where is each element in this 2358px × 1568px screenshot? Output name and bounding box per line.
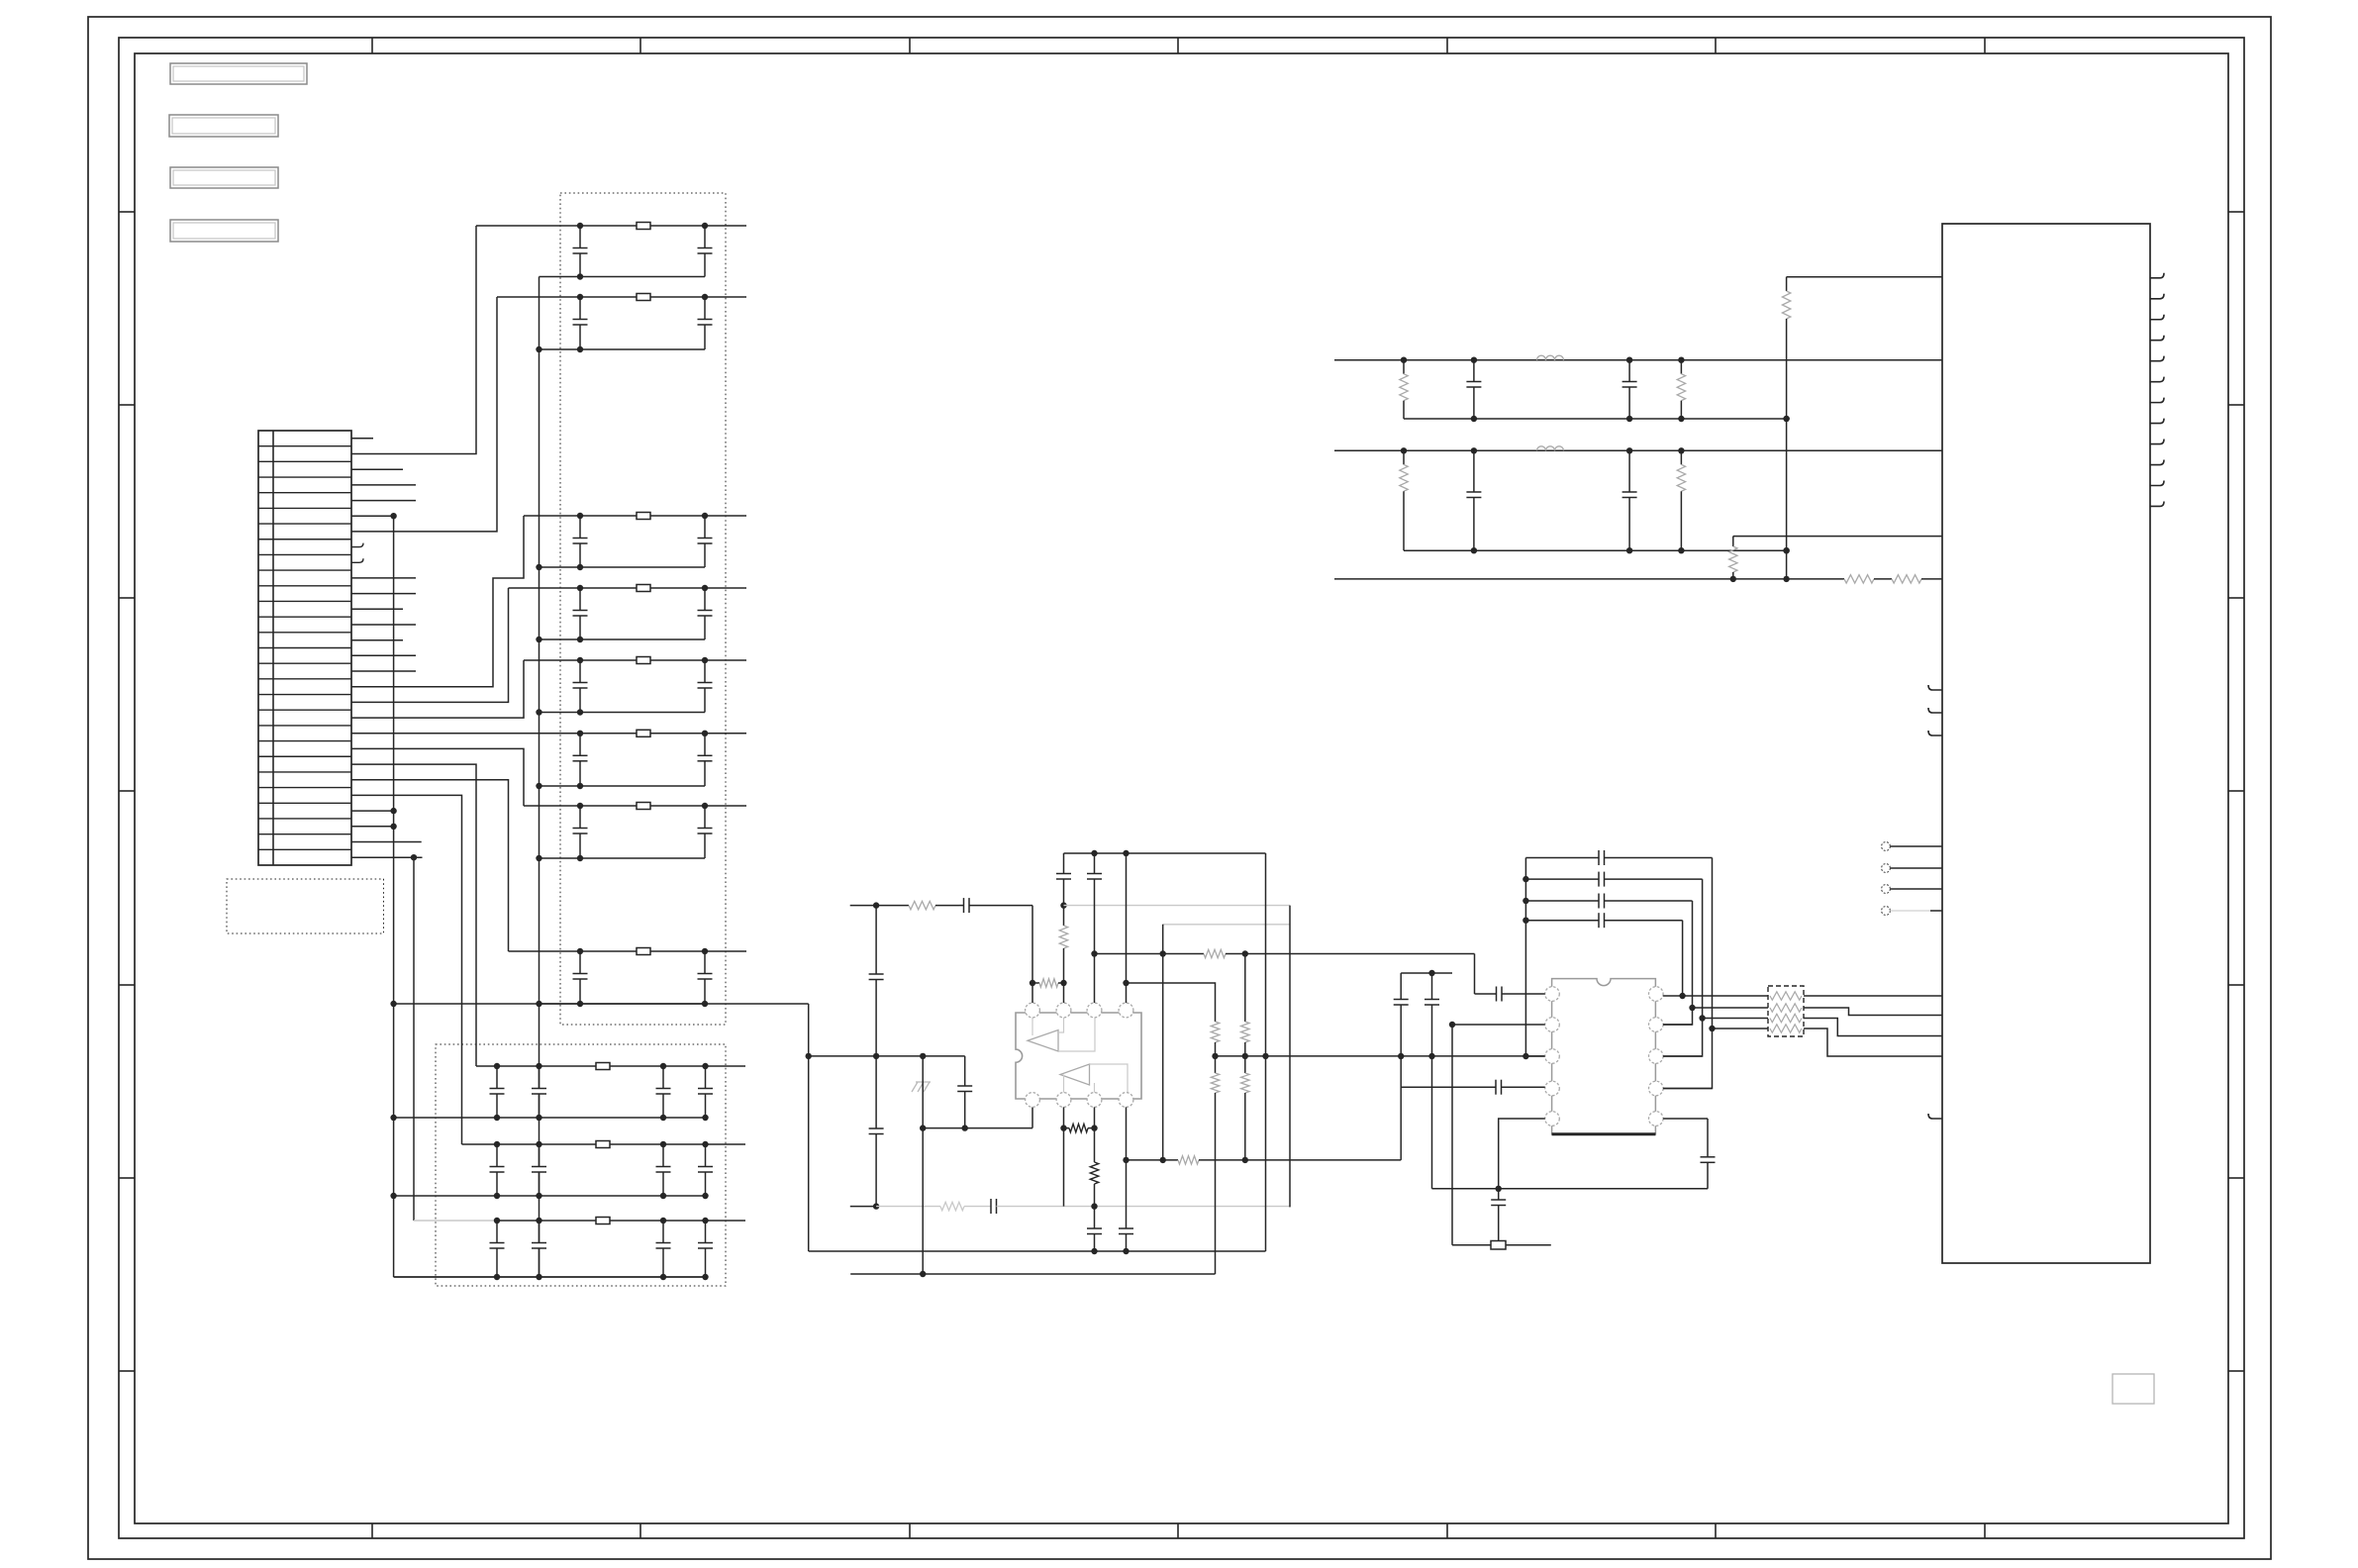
junction T2/915 (grey tap) bbox=[1060, 902, 1066, 908]
LVDS filter cell 8: bead FB8, caps, rails bbox=[509, 950, 747, 952]
title label box 3 bbox=[170, 167, 278, 188]
junction capbus/910 bbox=[1523, 898, 1528, 904]
wire connector pin 6 to ground bus A bbox=[351, 515, 394, 517]
U3 left-edge pin hooks (3) bbox=[1928, 685, 1942, 690]
net y=1172 (B4 feedback) bbox=[1127, 1159, 1179, 1161]
junction pin2L/1467 bbox=[1449, 1022, 1455, 1028]
op-amp bottom pin circles bbox=[1026, 1093, 1040, 1108]
frame zone ticks left bbox=[119, 211, 135, 213]
wire connector pin 3 stub bbox=[351, 468, 403, 470]
wire connector pin 16 stub bbox=[351, 670, 416, 672]
op-amp internal feedback (grey) bbox=[1032, 1018, 1033, 1035]
wire connector pin 11 stub bbox=[351, 593, 416, 595]
LVDS filter cell 1: bead FB1, caps, rails bbox=[476, 225, 746, 227]
wire pin 28 drop to cell D3 bbox=[413, 857, 415, 1221]
test pad circle 2 bbox=[1882, 864, 1891, 873]
cap2 right vert -> pin3R bbox=[1663, 879, 1703, 1056]
junction 963.5/right col bbox=[1242, 950, 1248, 956]
op-amp input line y=915 stub bbox=[850, 905, 876, 907]
T4 column bbox=[1126, 853, 1128, 1003]
junction pin 25 / bus A bbox=[390, 808, 396, 814]
junction bus B / cell D1 bottom rail bbox=[536, 1115, 541, 1121]
IC U2 body bbox=[1552, 979, 1656, 1134]
chassis ground glyph (grey) bbox=[912, 1082, 931, 1092]
wire corner into pin T1 node bbox=[1032, 906, 1033, 983]
wire connector pin 21 to filter cell 7 bbox=[351, 748, 524, 806]
left column x=885: caps to rails bbox=[875, 906, 877, 974]
wire pin2R bbox=[1663, 1024, 1692, 1026]
junction bus A / cell D1 bottom rail bbox=[390, 1115, 396, 1121]
capacitor C-A column x=1415 bbox=[1400, 973, 1402, 1000]
resistor R-in1 (y=915) bbox=[876, 905, 909, 907]
junction 1805/556 bbox=[1783, 547, 1789, 553]
wire box pin y=541.6 + resistor drop bbox=[1733, 536, 1942, 538]
LVDS filter cell 2: bead FB2, caps, rails bbox=[497, 296, 746, 298]
wire bottom rail y=1264 bbox=[809, 1250, 1266, 1252]
junction 1278/1067 bbox=[1262, 1053, 1268, 1059]
filter cell D2: bead, 4 caps, rails bbox=[462, 1143, 746, 1145]
wire net963 corner bbox=[1474, 954, 1476, 995]
wire connector pin 22 to filter cell D1 bbox=[351, 764, 476, 1066]
junction 1175/963.5 bbox=[1160, 950, 1166, 956]
op-amp B triangle (grey) bbox=[1060, 1064, 1090, 1085]
op-amp top pin circles bbox=[1026, 1003, 1040, 1018]
ground bus B vertical x=544.5 bbox=[539, 277, 540, 1089]
junction net2 tap bbox=[1689, 1005, 1695, 1011]
net y=963.5 opamp output bbox=[1095, 953, 1205, 955]
net2 wire to box bbox=[1693, 1007, 1769, 1009]
junction 932/1287 bbox=[920, 1271, 926, 1277]
junction 1227/1067 bbox=[1212, 1053, 1218, 1059]
mid rail y=1067 right bbox=[1216, 1055, 1551, 1057]
junction 1415/1067 bbox=[1398, 1053, 1404, 1059]
wire connector pin 25 to bus A bbox=[351, 810, 394, 812]
resistor R (T1-T2) y=993 bbox=[1032, 982, 1039, 984]
wire pin4R bbox=[1663, 1088, 1712, 1090]
junction cell8 rail / right cap bbox=[702, 1001, 708, 1007]
frame zone ticks right bbox=[2228, 211, 2244, 213]
filter cell D3: bead, 4 caps, rails bbox=[414, 1220, 497, 1222]
test pad circle 3 bbox=[1882, 885, 1891, 894]
wire cell8 rail drop x=817 bbox=[808, 1004, 810, 1251]
wire pin2L bbox=[1452, 1024, 1545, 1026]
grey net y=1219 with resistor and cap bbox=[876, 1206, 940, 1208]
wire connector pin 27 stub bbox=[351, 841, 422, 843]
wire pin5L + cap bbox=[1499, 1119, 1545, 1189]
junction bus B / cell 5 bottom rail bbox=[536, 709, 541, 715]
wire pin1R to box (net1) bbox=[1663, 995, 1768, 997]
U3 right-edge pin hooks (12) bbox=[2150, 273, 2164, 278]
no-connect hook pin 8 bbox=[351, 543, 363, 547]
wire connector pin 10 stub bbox=[351, 577, 416, 579]
junction B3 cap / rail1264 bbox=[1091, 1248, 1097, 1254]
junction bus B / cell 7 bottom rail bbox=[536, 855, 541, 861]
wire connector pin 17 to filter cell 3 bbox=[351, 516, 524, 687]
large IC/connector U3 body bbox=[1942, 224, 2150, 1263]
capacitor C-top2 horizontal bbox=[1525, 878, 1599, 880]
junction pin 26 / bus A bbox=[390, 824, 396, 830]
junction bus A / cell D2 bottom rail bbox=[390, 1193, 396, 1199]
resistor pack element 3 bbox=[1770, 1014, 1802, 1022]
junction T2/993 bbox=[1060, 980, 1066, 986]
junction 1514/1201 bbox=[1496, 1186, 1502, 1192]
wire connector pin 4 stub bbox=[351, 484, 416, 486]
wire B1 drop bbox=[1032, 1107, 1033, 1127]
wire connector pin 18 to filter cell 4 bbox=[351, 588, 509, 702]
IC U2 bottom edge (thick) bbox=[1552, 1132, 1656, 1135]
wire rail 1201 bbox=[1432, 1188, 1709, 1190]
cap3 right vert -> pin2R bbox=[1663, 901, 1692, 1025]
resistor R (B2-B3) y=1140 bbox=[1064, 1127, 1070, 1129]
junction net1 tap bbox=[1679, 993, 1685, 999]
junction B4/1172 bbox=[1123, 1157, 1129, 1163]
resistor pack element 4 bbox=[1770, 1025, 1802, 1032]
wire connector pin 26 to bus A bbox=[351, 826, 394, 828]
power filter row 2 (L,R,C) bbox=[1334, 449, 1942, 451]
junction 1805/585 bbox=[1783, 576, 1789, 582]
junction bus B / cell 6 bottom rail bbox=[536, 783, 541, 789]
vertical x=1175 bbox=[1162, 925, 1164, 1160]
capacitor C-top1 horizontal bbox=[1525, 857, 1599, 859]
cap1 right vert -> pin4R bbox=[1663, 858, 1712, 1089]
wire connector pin 24 to filter cell D2 bbox=[351, 795, 462, 1144]
resistor pack element 2 bbox=[1770, 1004, 1802, 1012]
wire T1 drop bbox=[1032, 983, 1033, 1003]
wire pin5R + cap bbox=[1663, 1118, 1708, 1120]
capacitor C-top4 horizontal bbox=[1525, 920, 1599, 922]
cap4 right vert -> net1 bbox=[1682, 921, 1684, 996]
junction 1258/1172 bbox=[1242, 1157, 1248, 1163]
dotted enclosure box 2 (lower filters) bbox=[436, 1044, 726, 1286]
junction 1751/585 bbox=[1730, 576, 1736, 582]
junction capbus/1067 bbox=[1523, 1053, 1528, 1059]
wire y=1287 rail bbox=[850, 1273, 1215, 1275]
junction bus B / cell 3 bottom rail bbox=[536, 564, 541, 570]
wire bus A bottom corner to D3 bottom rail bbox=[394, 1276, 706, 1278]
vertical x=1303 bbox=[1289, 906, 1291, 1208]
wire cell 8 bottom rail extension bbox=[394, 1003, 809, 1005]
wire y=1140 left segment bbox=[923, 1127, 1032, 1129]
wire connector pin 5 stub bbox=[351, 500, 416, 502]
capacitor C-top3 horizontal bbox=[1525, 900, 1599, 902]
junction 1175/1172 bbox=[1160, 1157, 1166, 1163]
net3 wire to box bbox=[1703, 1018, 1768, 1020]
junction rail1067 x=885 bbox=[873, 1053, 879, 1059]
junction 817/1067 rail bbox=[806, 1053, 812, 1059]
title label box 2 bbox=[169, 115, 278, 137]
wire connector pin 19 to filter cell 5 bbox=[351, 660, 524, 718]
wire connector pin 13 stub bbox=[351, 624, 416, 626]
connector CN1 body (28-pin) bbox=[258, 431, 351, 865]
junction capbus/888.1 bbox=[1523, 876, 1528, 882]
LVDS filter cell 3: bead FB3, caps, rails bbox=[524, 515, 746, 517]
junction T4/993 bbox=[1123, 980, 1129, 986]
junction 1258/1067 bbox=[1242, 1053, 1248, 1059]
T2 column: cap,res bbox=[1063, 853, 1065, 874]
right col x=1258 resistors bbox=[1244, 954, 1246, 1023]
LVDS filter cell 7: bead FB7, caps, rails bbox=[524, 805, 746, 807]
junction 1805/423 bbox=[1783, 416, 1789, 422]
test pad circle 4 bbox=[1882, 907, 1891, 916]
bead line y=1258 bbox=[1452, 1244, 1491, 1246]
capacitor C-in1 series (y=915) bbox=[959, 905, 964, 907]
wire connector pin 1 stub bbox=[351, 438, 373, 440]
net y=983 bbox=[1401, 972, 1452, 974]
capacitor C series -> pin1L bbox=[1475, 993, 1497, 995]
junction B3/1219 bbox=[1091, 1203, 1097, 1209]
no-connect hook pin 9 bbox=[351, 558, 363, 562]
junction 975/1140 bbox=[962, 1125, 968, 1130]
bottom rail y=585 with series resistors bbox=[1334, 578, 1844, 580]
wire connector pin 12 stub bbox=[351, 608, 403, 610]
junction T1/993 bbox=[1030, 980, 1035, 986]
junction net4 tap bbox=[1709, 1026, 1715, 1031]
grey wire y=915 to right bbox=[1064, 905, 1291, 907]
LVDS filter cell 5: bead FB5, caps, rails bbox=[524, 659, 746, 661]
B2 column bbox=[1063, 1107, 1065, 1206]
wire connector pin 23 to filter cell 8 bbox=[351, 780, 509, 951]
B4 column: cap bbox=[1126, 1107, 1128, 1160]
ground bus A vertical x=398 bbox=[393, 516, 395, 1277]
junction T3/963.5 bbox=[1091, 950, 1097, 956]
junction bus B / cell 4 bottom rail bbox=[536, 637, 541, 642]
wire connector pin 28 to filter cell D3 bbox=[351, 856, 423, 858]
junction B2/1140 bbox=[1060, 1125, 1066, 1130]
frame zone ticks top bbox=[371, 38, 373, 53]
wire connector pin 15 stub bbox=[351, 654, 416, 656]
junction 983/capB bbox=[1428, 970, 1434, 976]
dotted enclosure box 1 (LVDS filters) bbox=[560, 193, 726, 1025]
junction bus B / cell D2 bottom rail bbox=[536, 1193, 541, 1199]
filter cell D1: bead, 4 caps, rails bbox=[476, 1065, 745, 1067]
wire pin4L bbox=[1401, 1086, 1496, 1088]
junction toprail T4 bbox=[1123, 850, 1129, 856]
junction pin 6 / bus A bbox=[390, 513, 396, 519]
junction 932/1140 bbox=[920, 1125, 926, 1130]
IC U2 right pin circles bbox=[1649, 987, 1664, 1002]
capacitor C-B column x=1446 bbox=[1431, 973, 1433, 1000]
test pad circle 1 bbox=[1882, 842, 1891, 851]
op-amp top rail y=862 bbox=[1064, 852, 1266, 854]
junction B4 cap / rail1264 bbox=[1123, 1248, 1129, 1254]
grey wire y=934 bbox=[1163, 924, 1290, 926]
wire pin3R bbox=[1663, 1055, 1703, 1057]
T3 column: cap bbox=[1094, 853, 1096, 874]
right rail x=1278.5 bbox=[1265, 853, 1267, 1251]
junction toprail T3 bbox=[1091, 850, 1097, 856]
junction B3/1140 bbox=[1091, 1125, 1097, 1130]
wire T4 node to right column bbox=[1127, 983, 1216, 1022]
frame zone ticks bottom bbox=[371, 1523, 373, 1538]
cap bus vertical x=1541 bbox=[1524, 858, 1526, 1057]
junction bus A / cell8 bottom rail bbox=[390, 1001, 396, 1007]
resistor pack RP1 (dashed) bbox=[1768, 986, 1804, 1036]
wire pin2L col down bbox=[1451, 1025, 1453, 1245]
power filter row 1 (L,R,C) bbox=[1334, 359, 1942, 361]
junction 1446/1067 bbox=[1428, 1053, 1434, 1059]
junction pin 28 corner bbox=[411, 854, 417, 860]
junction 885/915 bbox=[873, 902, 879, 908]
LVDS filter cell 4: bead FB4, caps, rails bbox=[509, 587, 747, 589]
net4 wire to box bbox=[1713, 1028, 1769, 1029]
junction rail1067 x=932 bbox=[920, 1053, 926, 1059]
wire connector pin 2 to filter cell 1 bbox=[351, 226, 476, 454]
capacitor C (975,1067-1140) bbox=[964, 1056, 966, 1086]
small dotted enclosure (empty) bbox=[227, 879, 384, 933]
title label box 4 bbox=[170, 220, 278, 242]
resistor pack element 1 bbox=[1770, 992, 1802, 1000]
title label box 1 bbox=[170, 63, 307, 84]
small box bottom-right bbox=[2112, 1374, 2154, 1404]
IC U2 left pin circles bbox=[1545, 987, 1560, 1002]
LVDS filter cell 6: bead FB6, caps, rails bbox=[476, 733, 746, 735]
junction net3 tap bbox=[1699, 1015, 1705, 1021]
pullup resistor column x=1805 bbox=[1786, 277, 1788, 291]
op-amp U1 body bbox=[1016, 1013, 1141, 1099]
wire connector pin 14 stub bbox=[351, 639, 403, 641]
wire connector pin 7 to filter cell 2 bbox=[351, 297, 497, 532]
B3 column: res, cap bbox=[1094, 1107, 1096, 1162]
wire pin3L rail bbox=[1525, 1055, 1544, 1057]
wire y=1219 stub + junction bbox=[850, 1206, 876, 1208]
junction bus B / cell D3 bottom rail bbox=[536, 1274, 541, 1280]
junction bus B / cell 8 bottom rail bbox=[536, 1001, 541, 1007]
right col x=1227.5 resistors bbox=[1211, 1022, 1219, 1042]
junction capbus/929.7 bbox=[1523, 918, 1528, 924]
U3 left-edge pin hook lower bbox=[1928, 1114, 1942, 1119]
signal rail y=1067 bbox=[809, 1055, 965, 1057]
vertical x=932 (gnd stub) bbox=[922, 1056, 924, 1274]
wire connector pin 20 to filter cell 6 bbox=[351, 733, 476, 735]
op-amp A triangle (grey) bbox=[1028, 1030, 1058, 1052]
junction bus B / cell 2 bottom rail bbox=[536, 346, 541, 352]
